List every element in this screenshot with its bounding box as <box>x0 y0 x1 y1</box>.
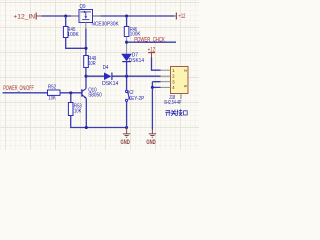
node base junction <box>69 91 72 94</box>
wire +12 to J18 pin1 <box>152 58 161 71</box>
switch K2 KEY-2P <box>126 76 145 102</box>
svg-text:POWER_ON/OFF: POWER_ON/OFF <box>3 85 34 92</box>
node POWER_CHCK junction <box>125 41 128 44</box>
wire J18 pin3 to pin4 tie <box>152 82 160 88</box>
wire Q10 emitter down <box>85 98 87 127</box>
svg-text:10K: 10K <box>48 95 55 101</box>
resistor R46 100K <box>124 16 140 38</box>
pin Q9 source <box>71 15 79 17</box>
pin 1 <box>161 69 171 71</box>
pin Q9 drain <box>93 15 101 17</box>
node switch-net junction <box>125 75 128 78</box>
svg-text:GND: GND <box>121 139 131 146</box>
wire R49 to collector node <box>85 68 87 77</box>
node collector/anode junction <box>84 75 87 78</box>
wire node to D4 <box>86 75 104 77</box>
wire D4 cathode to J18 pin2 <box>112 75 160 77</box>
pin Q9 gate <box>85 23 87 29</box>
node pin3/4 junction <box>151 86 154 89</box>
node emitter-rail junction <box>85 126 88 129</box>
svg-text:GND: GND <box>146 139 156 146</box>
wire R46 bottom to POWER_CHCK node <box>126 37 128 54</box>
power port +12 (middle) <box>148 46 156 57</box>
svg-text:KEY-2P: KEY-2P <box>128 96 144 102</box>
resistor R52 10K <box>48 84 61 101</box>
pin 4 <box>161 86 171 88</box>
label 开关接口 (switch interface) <box>165 109 187 116</box>
resistor R49 10R <box>84 56 97 68</box>
pin 2 <box>161 75 171 77</box>
connector J18 XH2.54-4P <box>161 67 189 106</box>
svg-text:NCE30P30K: NCE30P30K <box>92 22 119 28</box>
node gate junction <box>84 47 87 50</box>
svg-text:R52: R52 <box>48 84 56 90</box>
node junction top-right (R46 tap) <box>125 14 128 17</box>
wire +12_IN to Q9 source <box>42 15 80 17</box>
svg-text:10R: 10R <box>88 61 95 67</box>
node junction top-left (R45 tap) <box>64 14 67 17</box>
wire pin4 junction to ground <box>151 87 153 129</box>
pin 3 <box>161 81 171 83</box>
glyph 口 <box>184 111 188 115</box>
svg-text:D4: D4 <box>103 65 109 71</box>
wire D7 cathode down to switch net <box>126 62 128 77</box>
wire R52 to base node <box>60 92 82 94</box>
svg-text:10K: 10K <box>74 109 81 115</box>
glyph 关 <box>171 110 177 116</box>
wire gate vertical <box>85 29 87 56</box>
svg-text:+12_IN: +12_IN <box>13 14 35 21</box>
pin 5 (bottom stub) <box>180 94 182 100</box>
diode D7 DSK14 <box>121 53 144 64</box>
svg-text:+12: +12 <box>179 13 186 20</box>
diode D4 DSK14 <box>102 65 119 87</box>
svg-text:S8050: S8050 <box>88 93 102 99</box>
transistor Q9 NCE30P30K (P-MOSFET) <box>79 4 119 28</box>
wire POWER_CHCK <box>127 41 176 43</box>
svg-text:100K: 100K <box>67 32 78 38</box>
wire R45 bottom to gate node <box>66 38 86 49</box>
wire POWER_ON/OFF to R52 <box>3 92 48 94</box>
power port +12 (top right) <box>174 13 185 21</box>
ground GND (right) <box>146 134 156 146</box>
resistor R45 100K <box>63 16 78 38</box>
svg-text:XH2.54-4P: XH2.54-4P <box>164 100 182 106</box>
major grid lines <box>0 0 199 150</box>
svg-text:DSK14: DSK14 <box>129 58 145 64</box>
glyph 接 <box>177 109 183 116</box>
wire Q9 drain to +12 <box>93 15 175 17</box>
svg-text:DSK14: DSK14 <box>102 81 119 87</box>
power port +12_IN <box>13 13 41 21</box>
svg-text:POWER_CHCK: POWER_CHCK <box>134 37 165 44</box>
wire R53 bottom to ground rail <box>71 116 127 128</box>
ground GND (left) <box>121 128 131 146</box>
node rail-K2-GND junction <box>125 126 128 129</box>
transistor Q10 S8050 (NPN) <box>76 76 103 98</box>
wire K2 bottom to ground rail <box>126 102 128 128</box>
resistor R53 10K <box>68 93 82 116</box>
glyph 开 <box>165 111 170 116</box>
